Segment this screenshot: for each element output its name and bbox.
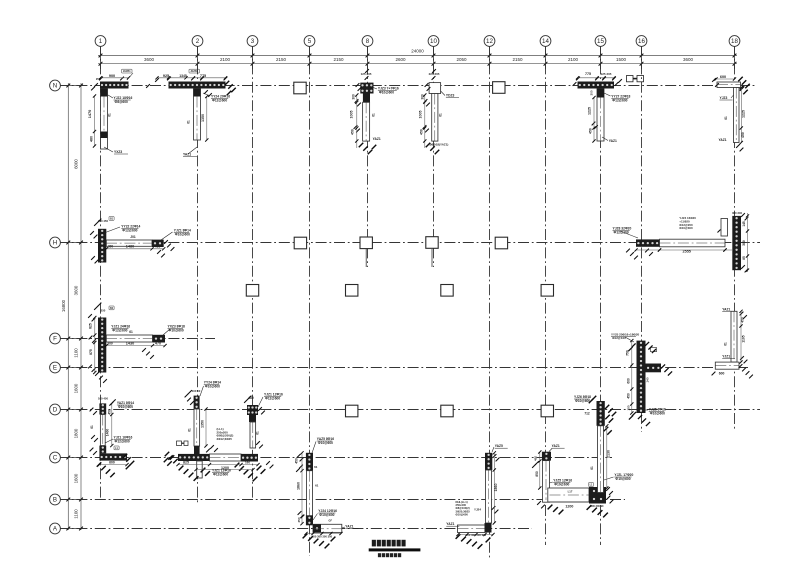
axis bubble F [50, 333, 61, 344]
column square H-5 [294, 237, 306, 249]
grid line axis F [58, 338, 215, 340]
svg-text:61: 61 [724, 342, 728, 346]
axis bubble 1 [95, 36, 106, 47]
axis bubble 3 [247, 36, 258, 47]
axis bubble 2 [192, 36, 203, 47]
svg-text:YAZ1: YAZ1 [446, 522, 454, 526]
svg-text:16800: 16800 [61, 299, 66, 312]
svg-text:Ф10@600: Ф10@600 [318, 441, 333, 445]
svg-text:600: 600 [627, 378, 631, 384]
svg-text:24000: 24000 [411, 49, 424, 54]
grid line axis 12 [489, 45, 491, 558]
title block [369, 540, 421, 557]
svg-text:5: 5 [308, 38, 312, 45]
svg-text:D: D [53, 407, 58, 414]
svg-text:300: 300 [108, 245, 114, 249]
svg-text:61: 61 [188, 428, 192, 432]
svg-text:300: 300 [352, 94, 356, 100]
svg-text:1105: 1105 [742, 335, 746, 342]
svg-text:61: 61 [108, 113, 112, 117]
svg-text:600: 600 [720, 75, 726, 79]
svg-text:925: 925 [163, 74, 169, 78]
svg-text:Ф10@600: Ф10@600 [554, 483, 569, 487]
column square H-12 [495, 237, 507, 249]
left segment dimension chain [73, 83, 83, 530]
wall column YJZ8 axis 18/H [613, 211, 749, 273]
svg-text:Ф12@100: Ф12@100 [614, 231, 629, 235]
svg-text:61: 61 [372, 113, 376, 117]
svg-text:B: B [53, 497, 57, 504]
svg-text:1350: 1350 [201, 420, 205, 428]
svg-text:1480: 1480 [126, 245, 134, 249]
grid line axis E [58, 367, 748, 369]
svg-text:61: 61 [590, 466, 594, 470]
axis bubble D [50, 404, 61, 415]
column square G-8 [346, 285, 358, 297]
svg-text:825: 825 [89, 323, 93, 329]
svg-text:1800: 1800 [73, 428, 78, 438]
svg-text:3600: 3600 [144, 57, 155, 62]
axis bubble 14 [540, 36, 551, 47]
wall column YJZ1 axis 1/F [88, 303, 185, 383]
grid line axis 1 [100, 45, 102, 500]
svg-text:J01: J01 [130, 235, 136, 239]
axis bubble 10 [428, 36, 439, 47]
wall segment axis 16/N [627, 76, 644, 82]
wall column YY22 axis 1/H [90, 217, 191, 264]
svg-text:YJ24: YJ24 [474, 508, 481, 512]
svg-text:2100: 2100 [568, 57, 579, 62]
svg-text:Ф12@100: Ф12@100 [612, 336, 626, 340]
svg-text:1225: 1225 [588, 107, 592, 115]
svg-text:85: 85 [742, 256, 746, 260]
svg-text:125 305: 125 305 [361, 72, 372, 76]
svg-text:61: 61 [724, 116, 728, 120]
svg-text:N: N [53, 83, 57, 90]
svg-text:Ф10@600: Ф10@600 [319, 513, 334, 517]
column square N-5 [294, 82, 306, 94]
grid line axis 14 [545, 45, 547, 545]
svg-text:Ф12@600: Ф12@600 [212, 99, 227, 103]
svg-text:61: 61 [256, 431, 260, 435]
axis bubble A [50, 523, 61, 534]
svg-text:YAZ1: YAZ1 [552, 444, 560, 448]
svg-text:300 300 90: 300 300 90 [591, 504, 605, 508]
svg-text:900: 900 [109, 74, 115, 78]
svg-text:61: 61 [315, 484, 319, 488]
svg-text:YDZ3: YDZ3 [446, 94, 455, 98]
svg-text:JGZB1: JGZB1 [123, 70, 131, 73]
svg-text:1345: 1345 [179, 74, 187, 78]
wall column YDZ3 axis 10/N [419, 69, 460, 154]
column square N-12 [493, 82, 505, 94]
axis bubble 18 [729, 36, 740, 47]
wall column YAZ5 axis 12/C [446, 444, 507, 549]
wall column YY24 axis 2/N [146, 69, 236, 156]
svg-text:Ф12@600: Ф12@600 [122, 229, 137, 233]
svg-text:1350: 1350 [201, 114, 205, 122]
svg-text:160: 160 [245, 461, 250, 465]
svg-text:450: 450 [351, 129, 355, 135]
svg-text:1225: 1225 [741, 110, 745, 118]
svg-text:10: 10 [430, 38, 437, 45]
column stub line 10 [431, 249, 433, 267]
wall beam row C axes 2-3 [164, 427, 274, 481]
grid line axis H [58, 242, 760, 244]
column square G-10 [441, 285, 453, 297]
svg-text:Ф10@600: Ф10@600 [615, 477, 630, 481]
svg-text:875: 875 [89, 349, 93, 355]
svg-text:300 340: 300 340 [732, 211, 743, 215]
grid line axis A [58, 528, 532, 530]
axis bubble H [50, 237, 61, 248]
svg-text:712: 712 [584, 412, 590, 416]
svg-text:1100: 1100 [73, 348, 78, 358]
svg-text:600: 600 [109, 460, 115, 464]
svg-text:2150: 2150 [512, 57, 523, 62]
column square H-10 [426, 237, 438, 249]
svg-text:YAZ5: YAZ5 [495, 444, 503, 448]
svg-text:600: 600 [719, 371, 725, 375]
svg-text:1005: 1005 [350, 111, 354, 119]
left overall dimension 16800 [61, 83, 70, 530]
wall column YJZ6 axis 15/D [574, 395, 634, 493]
svg-text:100 450: 100 450 [98, 397, 109, 401]
svg-text:F: F [53, 336, 57, 343]
svg-text:8: 8 [366, 38, 370, 45]
column square G-3 [246, 285, 258, 297]
svg-text:480: 480 [90, 136, 94, 142]
wall column YJZ1 axis 1/C [90, 397, 135, 478]
svg-text:225 305: 225 305 [429, 72, 440, 76]
svg-text:450: 450 [295, 458, 299, 464]
svg-text:61: 61 [187, 120, 191, 124]
svg-text:Ф10@600: Ф10@600 [379, 91, 394, 95]
svg-text:1860: 1860 [297, 482, 301, 490]
svg-text:Ф10@600: Ф10@600 [175, 233, 190, 237]
column square D-14 [541, 405, 553, 417]
svg-text:470: 470 [155, 341, 161, 345]
grid line axis 10 [433, 45, 435, 267]
svg-text:YAZ1: YAZ1 [609, 139, 617, 143]
svg-text:GF: GF [329, 520, 333, 523]
svg-text:1600: 1600 [73, 473, 78, 483]
axis bubble C [50, 452, 61, 463]
wall column YAZ1 axis 14/C [532, 444, 613, 517]
svg-text:300: 300 [107, 341, 113, 345]
svg-text:300: 300 [590, 90, 594, 95]
svg-text:15: 15 [597, 38, 604, 45]
svg-text:775: 775 [585, 72, 591, 76]
grid line axis N [58, 85, 756, 87]
svg-text:2: 2 [196, 38, 200, 45]
wall column YJZ1 axis 3/D [244, 393, 283, 449]
axis stubs top [101, 47, 735, 70]
svg-text:61: 61 [90, 425, 94, 429]
grid line axis D [58, 409, 760, 411]
column stub line 8 [365, 249, 367, 267]
svg-text:61: 61 [129, 330, 133, 334]
axis bubble N [50, 80, 61, 91]
svg-text:Ф10@600: Ф10@600 [169, 329, 184, 333]
axis stubs left [61, 86, 87, 529]
svg-text:250: 250 [101, 309, 106, 313]
grid line axis 16 [641, 45, 643, 432]
svg-text:Ф12@600: Ф12@600 [213, 473, 228, 477]
top overall dimension 24000 [98, 49, 737, 58]
svg-text:YJZ3: YJZ3 [720, 96, 728, 100]
svg-text:H: H [53, 240, 57, 247]
svg-text:300: 300 [421, 94, 425, 100]
wall column YAZ5 axis 5/C [295, 437, 359, 548]
svg-text:Ф10@600: Ф10@600 [575, 399, 590, 403]
wall column YJZ2 axis 1/N [88, 69, 133, 154]
svg-text:12: 12 [486, 38, 493, 45]
grid line axis 8 [367, 45, 369, 267]
svg-text:125 305: 125 305 [601, 72, 612, 76]
svg-text:140: 140 [646, 377, 650, 382]
svg-text:YAZ1: YAZ1 [719, 138, 727, 142]
svg-text:3600: 3600 [73, 285, 78, 295]
svg-text:Ф12@600: Ф12@600 [112, 329, 127, 333]
svg-text:850: 850 [535, 471, 539, 477]
svg-text:2050: 2050 [456, 57, 467, 62]
svg-text:YAZ1: YAZ1 [345, 525, 353, 529]
wall centerlines [106, 85, 741, 529]
svg-text:825: 825 [183, 461, 189, 465]
column square G-14 [541, 285, 553, 297]
svg-text:1005: 1005 [419, 111, 423, 119]
svg-text:100 50: 100 50 [192, 389, 201, 393]
svg-text:Ф12@600: Ф12@600 [265, 397, 280, 401]
svg-text:3600: 3600 [683, 57, 694, 62]
wall column YY27 axis 15/N [573, 72, 631, 143]
column square D-10 [441, 405, 453, 417]
grid line axis B [58, 499, 625, 501]
svg-text:C: C [53, 455, 58, 462]
axis bubble E [50, 362, 61, 373]
svg-text:E: E [53, 365, 57, 372]
svg-text:1200: 1200 [565, 504, 573, 508]
svg-text:61: 61 [314, 465, 318, 469]
grid line axis 18 [734, 45, 736, 430]
svg-text:18: 18 [731, 38, 738, 45]
svg-text:2100: 2100 [220, 57, 231, 62]
axis bubble 5 [304, 36, 315, 47]
svg-text:16: 16 [638, 38, 645, 45]
grid line axis 2 [197, 45, 199, 505]
svg-text:Ф8@600: Ф8@600 [115, 100, 129, 104]
svg-text:3: 3 [251, 38, 255, 45]
wall column YY25 axis 16/F [611, 333, 672, 427]
svg-text:2150: 2150 [276, 57, 287, 62]
svg-text:450: 450 [534, 456, 538, 461]
svg-text:450: 450 [589, 128, 593, 134]
grid line axis 5 [309, 45, 311, 556]
svg-text:YAZ1: YAZ1 [373, 137, 381, 141]
svg-text:Ф10@600: Ф10@600 [650, 412, 665, 416]
svg-text:480: 480 [155, 245, 161, 249]
element dimension lines [93, 76, 749, 536]
grid line axis 3 [252, 45, 254, 500]
svg-text:450: 450 [627, 393, 631, 399]
svg-text:YXZ3: YXZ3 [114, 150, 122, 154]
wall column YJZ3 axis 8/N [350, 69, 399, 154]
svg-text:6000: 6000 [73, 159, 78, 169]
svg-text:Ф12@600: Ф12@600 [115, 440, 130, 444]
top segment dimension chain [98, 57, 737, 66]
svg-text:1100: 1100 [73, 509, 78, 519]
grid line axis C [58, 457, 612, 459]
axis bubble B [50, 494, 61, 505]
svg-text:1500: 1500 [616, 57, 627, 62]
svg-text:Ф10@600: Ф10@600 [118, 405, 133, 409]
axis bubble 12 [484, 36, 495, 47]
axis bubble 16 [636, 36, 647, 47]
column square D-8 [346, 405, 358, 417]
svg-text:2150: 2150 [333, 57, 344, 62]
svg-text:2600: 2600 [395, 57, 406, 62]
svg-text:Ф12@600: Ф12@600 [612, 99, 627, 103]
svg-text:300: 300 [742, 240, 746, 246]
wall column YJZ3 axis 18/N [712, 75, 750, 151]
svg-text:14: 14 [542, 38, 549, 45]
axis bubble 8 [362, 36, 373, 47]
svg-text:150: 150 [627, 405, 631, 410]
svg-text:1470: 1470 [88, 110, 92, 118]
wall column YY24 axis 2/D [185, 381, 222, 447]
column square H-8 [360, 237, 372, 249]
svg-text:145: 145 [742, 221, 746, 227]
svg-text:Ф10@600: Ф10@600 [205, 385, 220, 389]
svg-text:450: 450 [108, 409, 112, 415]
axis bubble 15 [595, 36, 606, 47]
svg-text:1: 1 [99, 38, 103, 45]
svg-text:YAZ1: YAZ1 [183, 153, 191, 157]
grid line axis 15 [600, 45, 602, 545]
svg-text:Ф8Φ18(YAZ1): Ф8Φ18(YAZ1) [429, 143, 448, 147]
svg-text:61: 61 [439, 113, 443, 117]
svg-text:1400: 1400 [106, 429, 110, 437]
svg-text:450: 450 [420, 129, 424, 135]
svg-text:1600: 1600 [73, 383, 78, 393]
svg-text:YJZ1: YJZ1 [722, 355, 730, 359]
svg-text:L17: L17 [568, 490, 573, 494]
wall column YAZ1 axis 18/E [712, 308, 753, 379]
svg-text:YAZ1: YAZ1 [722, 308, 730, 312]
svg-text:1430: 1430 [126, 341, 134, 345]
svg-text:JGZB2: JGZB2 [190, 70, 198, 73]
